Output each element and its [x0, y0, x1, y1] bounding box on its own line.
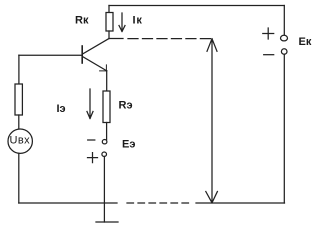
- wire: left branch upper: [18, 55, 20, 84]
- svg-text:Iэ: Iэ: [57, 103, 66, 115]
- wire: right branch lower: [283, 54, 285, 203]
- wire: left branch lower: [18, 153, 20, 203]
- wire: Rk top lead: [108, 6, 110, 13]
- resistor R input: [15, 84, 22, 115]
- transistor Q1 collector: [83, 39, 110, 55]
- wire: emitter lead down: [106, 71, 108, 91]
- wire: Rk bottom lead: [108, 31, 110, 39]
- svg-text:Eэ: Eэ: [122, 139, 135, 151]
- wire: bottom bus solid left: [19, 202, 117, 204]
- wire: Re bottom lead: [106, 123, 108, 140]
- voltage double arrow Eк span: [206, 39, 218, 203]
- terminal circle Eэ minus: [102, 140, 107, 144]
- transistor Q1 emitter with arrowhead: [83, 57, 107, 71]
- wire: left branch middle: [18, 115, 20, 129]
- terminal circle Eк plus: [281, 35, 288, 41]
- svg-text:Iк: Iк: [133, 15, 143, 27]
- resistor Rк: [106, 13, 113, 32]
- wire: Ee lower lead to ground: [103, 157, 105, 223]
- terminal circle Eк minus: [281, 49, 287, 55]
- current arrow Iэ: [87, 89, 93, 119]
- minus sign Eэ: [88, 139, 95, 141]
- svg-text:Eк: Eк: [299, 36, 312, 48]
- terminal circle Eэ plus: [102, 152, 107, 156]
- wire: collector junction solid segment: [109, 38, 123, 40]
- svg-text:Rэ: Rэ: [119, 99, 133, 111]
- ground: [96, 221, 118, 223]
- resistor Rэ: [103, 91, 110, 123]
- wire: bottom bus solid right: [196, 202, 285, 204]
- minus sign Eк: [264, 54, 274, 56]
- wire: top dashed line to voltage arrow: [128, 38, 210, 40]
- wire: top bus: [109, 5, 284, 7]
- transistor Q1 base bar: [81, 46, 83, 63]
- plus sign Eк: [263, 28, 274, 39]
- svg-text:Uвх: Uвх: [10, 134, 31, 146]
- svg-text:Rк: Rк: [75, 15, 89, 27]
- wire: base wire: [19, 54, 82, 56]
- current arrow Iк: [119, 13, 125, 32]
- wire: bottom dashed segment: [127, 202, 190, 204]
- plus sign Eэ: [88, 153, 98, 163]
- source Uвх circle: [8, 129, 32, 153]
- wire: right branch upper: [283, 6, 285, 36]
